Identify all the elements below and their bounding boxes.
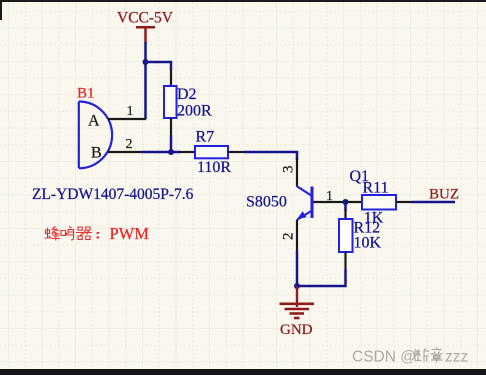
svg-text:zzz: zzz	[445, 349, 468, 366]
svg-text:CSDN @: CSDN @	[352, 349, 416, 366]
svg-text:A: A	[88, 113, 100, 130]
svg-text:10K: 10K	[354, 234, 382, 251]
wire VCC stem to junction J1	[144, 42, 147, 62]
power VCC-5V	[136, 27, 155, 43]
transistor Q1 S8050	[297, 186, 313, 220]
wire R7 to Q1 collector	[244, 152, 297, 160]
glyph ming (鸣)	[61, 227, 74, 240]
collector pin wire	[296, 158, 298, 186]
svg-text:D2: D2	[177, 86, 197, 103]
svg-text:B1: B1	[77, 85, 95, 101]
resistor R7	[179, 146, 244, 158]
wire emitter to junction J4	[296, 251, 299, 286]
svg-text:GND: GND	[280, 322, 313, 338]
resistor R11	[346, 195, 413, 210]
resistor R12	[339, 210, 353, 269]
base pin wire	[314, 201, 346, 203]
svg-text:3: 3	[280, 166, 296, 174]
ground GND	[280, 286, 315, 318]
wire J1 down to buzzer pin A	[144, 62, 147, 119]
svg-text:R11: R11	[363, 180, 389, 197]
svg-text:S8050: S8050	[246, 194, 287, 211]
svg-text:2: 2	[280, 233, 296, 241]
svg-text:R7: R7	[196, 128, 215, 145]
svg-text:VCC-5V: VCC-5V	[117, 10, 174, 27]
junction J1	[143, 59, 149, 65]
svg-text:1: 1	[127, 104, 134, 119]
junction J3 (base node)	[343, 199, 349, 205]
glyph duan (断)	[415, 349, 422, 361]
svg-text:110R: 110R	[197, 159, 231, 176]
emitter pin wire	[296, 220, 298, 252]
svg-text:200R: 200R	[177, 103, 212, 120]
svg-text:1: 1	[326, 189, 333, 204]
glyph zhang (章)	[431, 348, 443, 363]
wire R11 to BUZ	[412, 201, 455, 204]
wire buzzer pin B to R7	[142, 151, 180, 154]
wire D2 bottom to junction J2	[170, 135, 173, 152]
label 蜂鸣器: PWM (red annotation)	[45, 227, 98, 241]
svg-text:B: B	[91, 145, 102, 162]
glyph feng (蜂)	[45, 227, 60, 241]
junction J4	[294, 283, 300, 289]
wire J3 to R12	[344, 202, 347, 211]
svg-text:2: 2	[126, 137, 133, 152]
wire R12 bottom to junction J4	[297, 269, 346, 286]
junction J2	[168, 149, 174, 155]
buzzer B1	[79, 102, 146, 169]
watermark CSDN @duanzhang zzz	[352, 348, 468, 366]
resistor D2	[164, 69, 177, 135]
fullwidth colon	[96, 233, 99, 238]
wire J1 to resistor D2 top	[146, 62, 172, 70]
svg-text:BUZ: BUZ	[429, 187, 459, 203]
svg-text:PWM: PWM	[110, 224, 150, 243]
svg-text:ZL-YDW1407-4005P-7.6: ZL-YDW1407-4005P-7.6	[32, 186, 194, 203]
glyph qi (器)	[77, 227, 92, 239]
